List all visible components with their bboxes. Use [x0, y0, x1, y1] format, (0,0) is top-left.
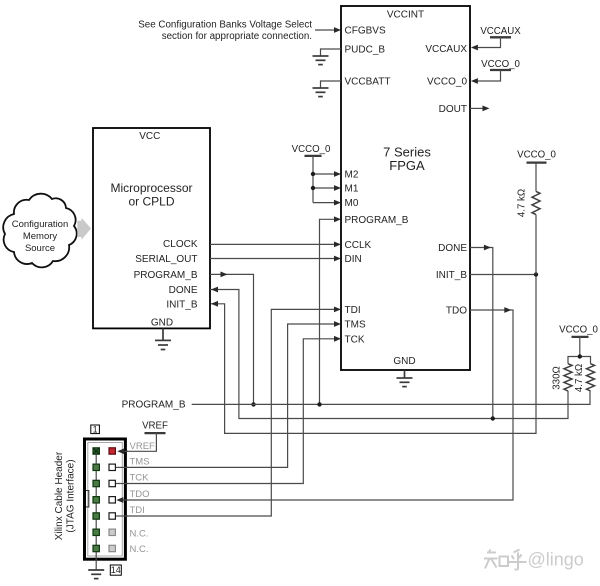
svg-text:See Configuration Banks Voltag: See Configuration Banks Voltage Select: [138, 20, 312, 31]
svg-text:M1: M1: [345, 184, 359, 195]
wire PUDC_B stub: [321, 49, 342, 56]
svg-text:INIT_B: INIT_B: [436, 270, 467, 281]
svg-text:PROGRAM_B: PROGRAM_B: [134, 270, 198, 281]
svg-text:@lingo: @lingo: [528, 550, 584, 570]
wire DONE from micro: [210, 290, 568, 419]
svg-text:CLOCK: CLOCK: [163, 239, 198, 250]
svg-text:TDI: TDI: [345, 305, 361, 316]
svg-text:Microprocessor: Microprocessor: [110, 181, 192, 195]
svg-text:VCCINT: VCCINT: [387, 10, 424, 21]
wire ground rail left pins: [95, 451, 97, 570]
svg-text:VCCO_0: VCCO_0: [517, 149, 556, 160]
wire VREF stub over header: [119, 450, 128, 452]
wire TMS stub over header: [116, 466, 128, 468]
wire DIN: [210, 258, 335, 260]
node M1 junction: [311, 186, 315, 190]
svg-text:INIT_B: INIT_B: [166, 299, 197, 310]
wire M2: [313, 173, 335, 175]
watermark zhihu logo: [484, 550, 527, 570]
svg-text:TDO: TDO: [130, 489, 150, 500]
header pins left column (green): [93, 448, 99, 552]
svg-text:PUDC_B: PUDC_B: [345, 45, 386, 56]
svg-text:VREF: VREF: [142, 421, 168, 432]
ground below header: [88, 570, 104, 579]
svg-text:TDI: TDI: [130, 505, 145, 516]
wire M1: [313, 187, 335, 189]
resistor R2 330 DONE pull-up: [564, 364, 572, 391]
ground below Microprocessor: [155, 328, 171, 349]
wire CCLK: [210, 243, 335, 245]
svg-text:N.C.: N.C.: [130, 528, 149, 539]
svg-text:TMS: TMS: [345, 320, 366, 331]
svg-text:TCK: TCK: [130, 473, 150, 484]
svg-text:4.7 kΩ: 4.7 kΩ: [517, 189, 528, 217]
cloud Configuration Memory Source: [3, 194, 76, 268]
Microprocessor U2 box: [93, 128, 210, 328]
wire micro PROGRAM_B to net: [210, 274, 254, 404]
wire TDI stub over header: [116, 515, 128, 517]
wire PROGRAM_B net: [192, 391, 590, 404]
VCCO_0 supply right: [471, 59, 521, 84]
FPGA right pin labels: [425, 44, 467, 317]
header row labels: [130, 441, 156, 555]
JTAG header J1 outer: [85, 439, 126, 559]
node pull-up junction: [578, 354, 582, 358]
svg-text:VCCO_0: VCCO_0: [292, 144, 331, 155]
JTAG header key notch: [86, 491, 89, 507]
node PROGRAM_B junction left: [251, 402, 255, 406]
ground at VCCBATT: [313, 88, 329, 97]
svg-text:VCCO_0: VCCO_0: [427, 77, 467, 88]
svg-text:VCC: VCC: [139, 131, 160, 142]
svg-text:(JTAG Interface): (JTAG Interface): [66, 459, 77, 532]
svg-text:N.C.: N.C.: [130, 544, 149, 555]
pin 14 label box: [110, 565, 121, 575]
wire TMS: [116, 324, 335, 467]
svg-text:M2: M2: [345, 170, 359, 181]
VCCO_0 supply INIT_B pull-up: [517, 149, 556, 191]
svg-text:TCK: TCK: [345, 334, 365, 345]
svg-text:M0: M0: [345, 198, 359, 209]
svg-text:or CPLD: or CPLD: [128, 194, 174, 208]
JTAG header inner outline: [88, 443, 123, 557]
VCCO_0 supply DONE/PROGRAM pull-ups: [559, 325, 598, 357]
svg-text:section for appropriate connec: section for appropriate connection.: [162, 31, 312, 42]
svg-text:1: 1: [93, 424, 98, 434]
pin1 X mark: [94, 448, 99, 453]
resistor R3 4.7k PROGRAM_B pull-up: [587, 364, 595, 391]
wire DONE from FPGA: [470, 248, 493, 419]
node PROGRAM_B junction right: [317, 402, 321, 406]
svg-text:DONE: DONE: [169, 285, 198, 296]
Microprocessor title: [110, 131, 192, 209]
wire note to CFGBVS: [315, 29, 335, 31]
svg-text:GND: GND: [151, 318, 173, 329]
wire TDI: [116, 309, 335, 516]
wire PROGRAM_B to FPGA: [320, 219, 336, 404]
wire TDO from FPGA: [118, 310, 513, 500]
svg-text:CFGBVS: CFGBVS: [345, 26, 386, 37]
header pins N.C. (grey): [109, 529, 115, 552]
svg-text:VCCBATT: VCCBATT: [345, 77, 391, 88]
svg-text:Memory: Memory: [23, 231, 58, 242]
wire INIT_B: [211, 275, 536, 434]
wire M0: [313, 202, 335, 204]
svg-text:TMS: TMS: [130, 456, 150, 467]
svg-text:330Ω: 330Ω: [552, 366, 563, 389]
header pins TMS TCK TDO TDI (white): [109, 464, 115, 519]
svg-text:VCCAUX: VCCAUX: [425, 44, 467, 55]
node DONE junction: [491, 416, 495, 420]
svg-text:Configuration: Configuration: [12, 219, 69, 230]
note text: [138, 20, 312, 42]
svg-text:DONE: DONE: [438, 243, 467, 254]
VREF supply: [117, 421, 168, 454]
node INIT_B junction: [534, 272, 538, 276]
wire R1 to INIT_B: [535, 215, 537, 275]
node M2 junction: [311, 172, 315, 176]
Microprocessor pin labels: [134, 239, 198, 310]
wire VCCBATT stub: [321, 81, 342, 88]
svg-text:VCCO_0: VCCO_0: [559, 325, 598, 336]
wire TDO stub over header: [118, 499, 128, 501]
svg-text:GND: GND: [393, 356, 415, 367]
svg-text:PROGRAM_B: PROGRAM_B: [122, 400, 186, 411]
svg-text:PROGRAM_B: PROGRAM_B: [345, 215, 409, 226]
svg-text:4.7 kΩ: 4.7 kΩ: [574, 364, 585, 392]
resistor R1 4.7k INIT_B pull-up: [532, 191, 540, 214]
svg-text:VCCO_0: VCCO_0: [481, 59, 520, 70]
ground below FPGA: [397, 370, 413, 387]
header pin VREF (red): [109, 448, 115, 454]
svg-text:SERIAL_OUT: SERIAL_OUT: [135, 254, 197, 265]
svg-text:TDO: TDO: [446, 306, 467, 317]
VCCAUX supply: [471, 26, 521, 50]
pin 1 label box: [91, 425, 100, 434]
FPGA left pin labels: [345, 26, 409, 346]
VCCO_0 supply for mode pins: [292, 144, 331, 203]
svg-text:FPGA: FPGA: [389, 158, 425, 173]
wire TCK stub over header: [116, 483, 128, 485]
svg-text:VCCAUX: VCCAUX: [480, 26, 521, 37]
FPGA title: [383, 10, 431, 174]
FPGA U1 box: [341, 6, 470, 370]
wire TCK: [116, 339, 335, 484]
wire pull-up bracket: [568, 357, 591, 364]
arrow cloud to microprocessor: [77, 218, 91, 240]
svg-text:CCLK: CCLK: [345, 240, 372, 251]
svg-text:Xilinx Cable Header: Xilinx Cable Header: [54, 451, 65, 540]
ground at PUDC_B: [313, 56, 329, 65]
svg-text:14: 14: [111, 565, 121, 575]
wire DOUT: [470, 107, 483, 109]
svg-text:DOUT: DOUT: [439, 104, 467, 115]
svg-text:Source: Source: [25, 243, 55, 254]
svg-text:DIN: DIN: [345, 254, 362, 265]
svg-text:VREF: VREF: [130, 441, 156, 452]
